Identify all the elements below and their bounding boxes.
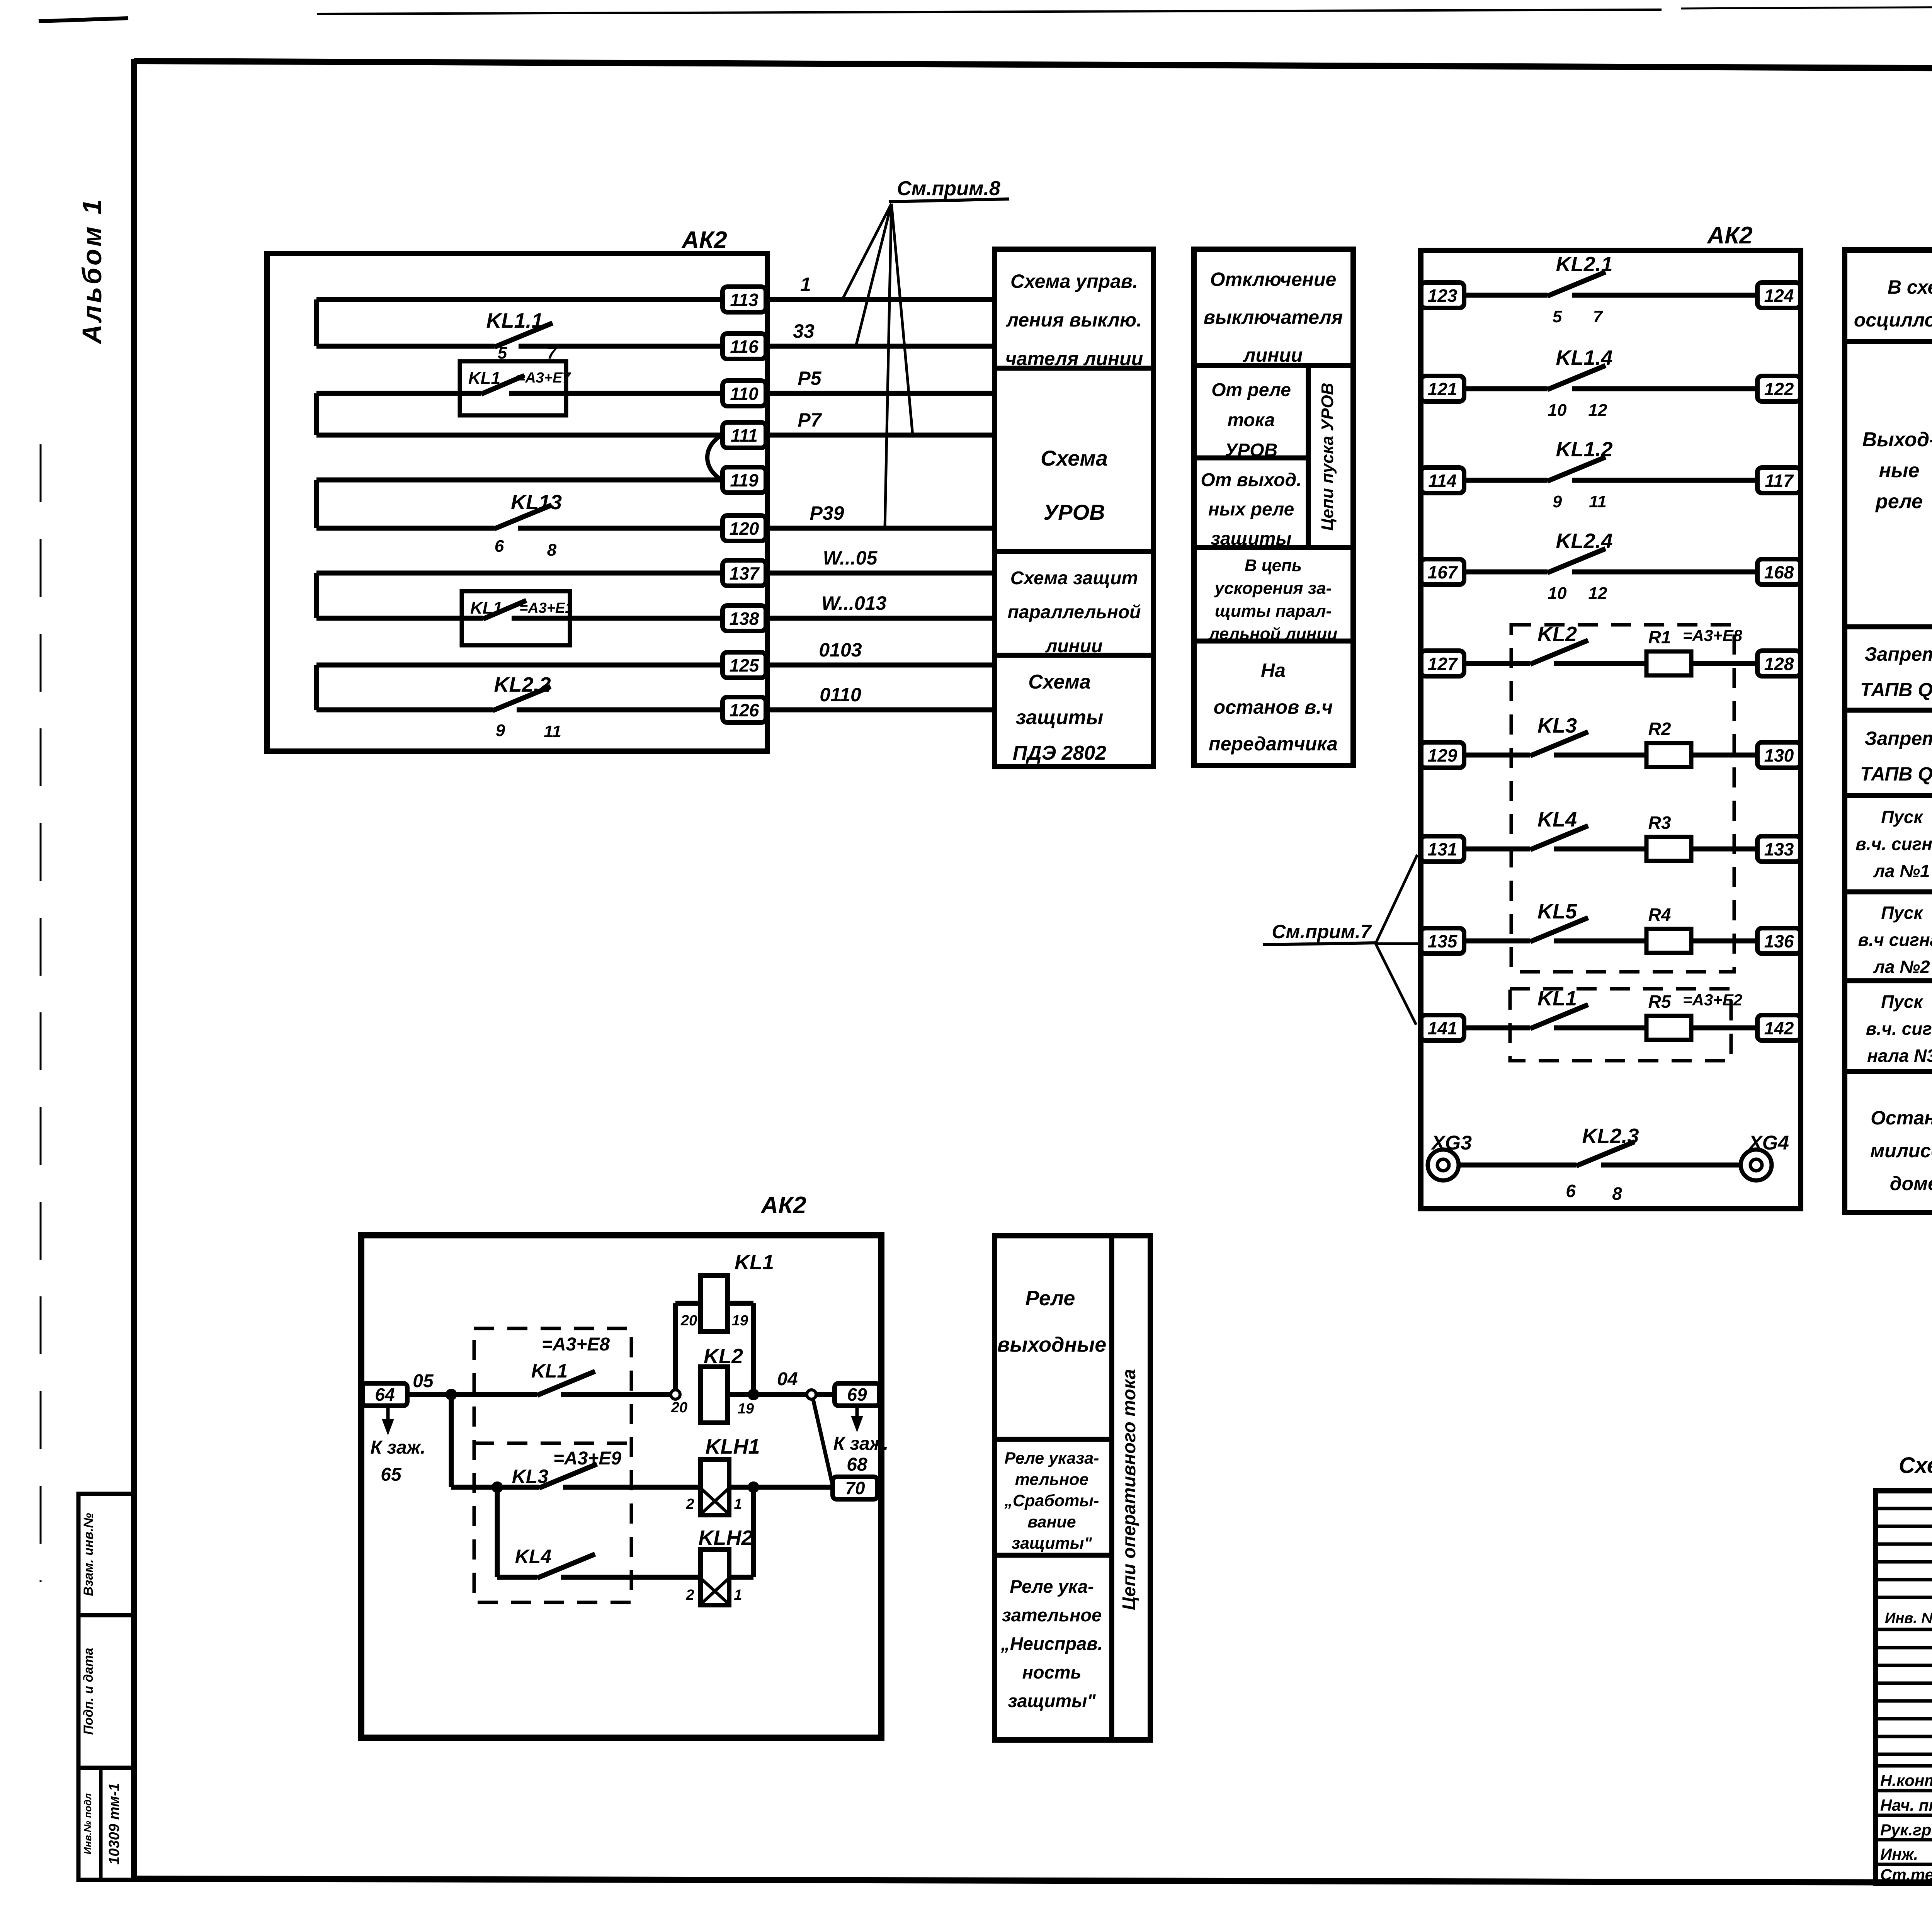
contact KL1 (row 05): [531, 1360, 675, 1395]
wire row 167-168: [1464, 570, 1757, 575]
name row Инж. Буянов: [1880, 1845, 1932, 1863]
svg-text:тельное: тельное: [1015, 1470, 1089, 1489]
svg-text:138: 138: [730, 609, 759, 629]
svg-text:милисекун-: милисекун-: [1870, 1140, 1932, 1162]
contact KL1.2: [1548, 438, 1613, 511]
contact KL3: [512, 1464, 701, 1488]
svg-text:9: 9: [1553, 492, 1562, 511]
svg-text:Подп. и дата: Подп. и дата: [81, 1648, 96, 1735]
wire Р7: [767, 409, 995, 435]
wire Р5: [767, 367, 995, 393]
wire W...013: [767, 592, 995, 618]
frame top edge marks: [39, 18, 128, 21]
wire row 135-136: [1464, 939, 1757, 944]
contact KL2.2: [493, 673, 723, 741]
arrow to zazh 68: [833, 1407, 889, 1475]
wire 04: [728, 1369, 835, 1395]
svg-text:в.ч сигна-: в.ч сигна-: [1858, 930, 1932, 950]
svg-text:KL2.1: KL2.1: [1556, 253, 1612, 276]
relay coil KL1: [680, 1251, 774, 1332]
terminal 126: [723, 697, 766, 723]
svg-text:чателя линии: чателя линии: [1005, 348, 1143, 369]
svg-text:К заж.: К заж.: [833, 1434, 889, 1454]
resistor R2: [1646, 719, 1691, 767]
svg-text:R3: R3: [1648, 813, 1671, 833]
dashed group box (KL1 KL3 KL4): [474, 1328, 631, 1602]
svg-text:ных реле: ных реле: [1208, 499, 1294, 520]
svg-text:19: 19: [732, 1313, 748, 1329]
wire KLH1 to 70: [729, 1485, 833, 1490]
terminal 123: [1421, 282, 1464, 308]
svg-text:Пуск: Пуск: [1881, 903, 1923, 923]
svg-text:линии: линии: [1045, 636, 1103, 656]
terminal 111: [723, 422, 766, 448]
wire branch down: [449, 1395, 454, 1487]
node open 04: [807, 1390, 816, 1399]
svg-text:10: 10: [1548, 584, 1567, 603]
svg-text:7: 7: [1593, 307, 1604, 326]
svg-text:11: 11: [1589, 492, 1607, 511]
svg-text:6: 6: [495, 537, 504, 556]
svg-text:114: 114: [1428, 471, 1456, 491]
svg-text:Пуск: Пуск: [1881, 992, 1923, 1012]
svg-text:Инв. №: Инв. №: [1885, 1610, 1932, 1626]
terminal 125: [723, 652, 766, 678]
svg-text:W...013: W...013: [821, 592, 887, 614]
svg-text:10309 тм-1: 10309 тм-1: [106, 1783, 122, 1864]
svg-text:19: 19: [738, 1401, 754, 1417]
svg-text:130: 130: [1764, 745, 1794, 765]
terminal 124: [1757, 282, 1801, 308]
svg-text:KL2.4: KL2.4: [1556, 529, 1612, 553]
svg-text:R1: R1: [1648, 627, 1671, 647]
svg-text:См.прим.8: См.прим.8: [897, 177, 1000, 200]
contact KL4: [515, 1546, 701, 1578]
svg-text:6: 6: [1566, 1181, 1576, 1201]
svg-text:KL1.4: KL1.4: [1556, 346, 1612, 369]
svg-text:Реле: Реле: [1026, 1287, 1075, 1310]
svg-text:Пуск: Пуск: [1881, 807, 1923, 827]
svg-text:Инв.№ подл: Инв.№ подл: [82, 1793, 94, 1854]
wire 137: [316, 573, 723, 618]
svg-text:1: 1: [800, 274, 811, 295]
leader lines to note 8: [842, 204, 913, 528]
svg-text:Инж.: Инж.: [1880, 1845, 1918, 1863]
wire row 114-117: [1464, 478, 1757, 483]
svg-text:Запрет: Запрет: [1864, 643, 1932, 665]
resistor R3: [1646, 813, 1691, 861]
svg-text:Ст.техн: Ст.техн: [1880, 1866, 1932, 1884]
svg-text:KL3: KL3: [1537, 714, 1577, 737]
wire row 141-142: [1464, 1026, 1757, 1031]
relay block AK2 (bottom-left): [361, 1235, 881, 1738]
svg-text:Н.контр: Н.контр: [1880, 1771, 1932, 1789]
svg-text:Цепи пуска УРОВ: Цепи пуска УРОВ: [1318, 383, 1337, 531]
relay coil KL2: [671, 1345, 754, 1423]
svg-text:Запрет: Запрет: [1864, 728, 1932, 749]
svg-text:„Неисправ.: „Неисправ.: [1000, 1633, 1102, 1654]
svg-text:9: 9: [496, 721, 505, 740]
svg-text:5: 5: [1553, 307, 1562, 326]
leader lines to note 7: [1376, 855, 1421, 1025]
wire row 131-133: [1464, 847, 1757, 852]
svg-text:133: 133: [1764, 839, 1794, 859]
wire 0110: [767, 684, 995, 710]
svg-text:В цепь: В цепь: [1245, 556, 1302, 575]
arrow to zazh 65: [371, 1406, 426, 1485]
relay block AK2 (top-left): [267, 253, 767, 751]
node KLH1-branch: [492, 1481, 503, 1493]
svg-text:68: 68: [847, 1454, 867, 1475]
svg-text:KL4: KL4: [1537, 808, 1577, 831]
svg-text:KL5: KL5: [1537, 900, 1577, 923]
svg-text:ные: ные: [1879, 459, 1920, 482]
side stamp box Vzam inv: [78, 1494, 134, 1615]
svg-text:=А3+Е7: =А3+Е7: [517, 370, 571, 386]
svg-text:домера: домера: [1890, 1173, 1932, 1194]
svg-text:Р5: Р5: [798, 367, 821, 389]
wire 1: [767, 274, 995, 299]
test jack XG3: [1428, 1132, 1472, 1180]
svg-text:Альбом 1: Альбом 1: [77, 197, 107, 345]
svg-text:линии: линии: [1243, 344, 1303, 366]
svg-text:136: 136: [1764, 931, 1794, 951]
terminal 114: [1421, 468, 1464, 493]
terminal 113: [723, 287, 766, 312]
svg-text:R2: R2: [1648, 719, 1671, 739]
relay block AK2 (middle): [1421, 250, 1801, 1209]
svg-text:168: 168: [1764, 562, 1794, 582]
svg-text:05: 05: [413, 1371, 434, 1391]
relay indicator KLH1: [685, 1435, 760, 1515]
svg-text:щиты парал-: щиты парал-: [1215, 602, 1332, 621]
contact KL13: [494, 491, 723, 560]
svg-text:ТАПВ Q2: ТАПВ Q2: [1860, 763, 1932, 785]
column: circuit destinations A: [995, 249, 1153, 767]
svg-text:W...05: W...05: [823, 547, 878, 569]
contact KL2.1: [1548, 253, 1613, 326]
wire row 127-128: [1464, 661, 1757, 666]
svg-text:XG4: XG4: [1748, 1132, 1789, 1154]
svg-text:Взам. инв.№: Взам. инв.№: [81, 1513, 96, 1596]
svg-text:20: 20: [680, 1313, 697, 1329]
svg-text:12: 12: [1588, 584, 1607, 603]
svg-text:137: 137: [730, 563, 760, 583]
svg-text:АК2: АК2: [1706, 222, 1752, 249]
svg-text:KLH1: KLH1: [705, 1435, 760, 1458]
svg-text:KL1: KL1: [470, 599, 502, 617]
svg-text:1: 1: [734, 1496, 742, 1512]
terminal 127: [1421, 651, 1464, 676]
wire KLH2 up: [729, 1487, 753, 1577]
svg-text:KL2.3: KL2.3: [1582, 1124, 1639, 1148]
wire 113 to contact KL1.1: [316, 299, 723, 346]
note Sm.prim.7: [1263, 921, 1376, 945]
terminal 122: [1757, 376, 1801, 401]
svg-text:ла №1: ла №1: [1873, 861, 1930, 881]
terminal 128: [1757, 651, 1801, 676]
svg-text:113: 113: [730, 290, 759, 310]
wire row 129-130: [1464, 753, 1757, 758]
svg-text:Реле указа-: Реле указа-: [1005, 1449, 1099, 1468]
wire 125 to contact KL2.2: [316, 665, 723, 710]
contact KL2.3: [1566, 1124, 1639, 1204]
svg-text:реле: реле: [1875, 490, 1923, 513]
svg-text:От реле: От реле: [1211, 380, 1291, 400]
svg-text:1: 1: [734, 1587, 742, 1603]
terminal 131: [1421, 836, 1464, 862]
wire 119 to contact KL13: [316, 480, 723, 528]
svg-text:10: 10: [1548, 401, 1567, 420]
svg-text:04: 04: [777, 1369, 798, 1389]
svg-text:Схема выполнена на листах 13,1: Схема выполнена на листах 13,14,15,16,17…: [1899, 1453, 1932, 1478]
parallel branch with coil KL1: [675, 1303, 753, 1395]
name row Н.контр Рывкина: [1880, 1771, 1932, 1789]
svg-text:ТАПВ Q1: ТАПВ Q1: [1860, 679, 1932, 701]
svg-text:лельной линии: лельной линии: [1208, 624, 1338, 643]
svg-text:вание: вание: [1027, 1513, 1076, 1531]
svg-text:Схема: Схема: [1041, 446, 1108, 470]
contact KL2.4: [1548, 529, 1613, 603]
svg-text:АК2: АК2: [681, 227, 727, 253]
svg-text:117: 117: [1765, 471, 1794, 491]
wire 110 loop: [316, 393, 723, 435]
svg-text:ность: ность: [1022, 1662, 1082, 1682]
svg-text:тока: тока: [1228, 410, 1275, 430]
terminal 110: [723, 381, 766, 406]
node main-branch: [446, 1389, 457, 1400]
boxed contact KL1 =A3+E1: [462, 591, 723, 645]
terminal 64: [362, 1383, 407, 1406]
svg-text:Р39: Р39: [810, 502, 844, 524]
contact KL3: [1530, 714, 1588, 756]
svg-text:0103: 0103: [819, 639, 862, 661]
svg-text:8: 8: [1612, 1184, 1622, 1204]
wire Р39: [767, 502, 995, 528]
svg-text:=А3+Е8: =А3+Е8: [542, 1334, 610, 1355]
wire 0103: [767, 639, 995, 665]
svg-text:KL2: KL2: [704, 1345, 743, 1368]
dashed group box row 141: [1510, 989, 1731, 1061]
jumper 111-119: [707, 435, 722, 480]
svg-text:120: 120: [730, 519, 759, 539]
wire branch KLH2: [497, 1487, 537, 1577]
svg-text:К заж.: К заж.: [371, 1437, 426, 1458]
svg-text:131: 131: [1428, 839, 1458, 859]
svg-text:12: 12: [1588, 401, 1607, 420]
svg-text:ления выклю.: ления выклю.: [1006, 309, 1142, 331]
svg-text:параллельной: параллельной: [1008, 602, 1141, 622]
svg-text:XG3: XG3: [1430, 1132, 1472, 1154]
svg-text:KL1.2: KL1.2: [1556, 438, 1612, 461]
terminal 129: [1421, 742, 1464, 768]
svg-text:нала N3: нала N3: [1867, 1046, 1932, 1066]
terminal 117: [1757, 468, 1801, 493]
svg-text:Отключение: Отключение: [1210, 269, 1337, 290]
wire W...05: [767, 547, 995, 573]
title block grid: [1876, 1491, 1932, 1883]
svg-text:R4: R4: [1648, 905, 1671, 925]
svg-text:выключателя: выключателя: [1204, 306, 1343, 328]
name row Рук.гр. Титова: [1880, 1821, 1932, 1839]
wire 33: [767, 320, 995, 346]
svg-text:116: 116: [730, 337, 759, 357]
svg-text:110: 110: [730, 384, 759, 404]
svg-text:128: 128: [1764, 654, 1794, 674]
contact KL2: [1530, 622, 1588, 664]
terminal 133: [1757, 836, 1801, 862]
svg-text:Схема управ.: Схема управ.: [1010, 270, 1138, 292]
terminal 142: [1757, 1015, 1801, 1041]
svg-text:129: 129: [1428, 745, 1458, 765]
svg-text:KL1: KL1: [468, 369, 500, 388]
wire 05: [407, 1371, 537, 1395]
svg-text:121: 121: [1428, 379, 1458, 399]
contact KL1: [1530, 987, 1588, 1029]
svg-text:осциллографа: осциллографа: [1854, 309, 1932, 331]
svg-text:выходные: выходные: [997, 1333, 1107, 1356]
svg-text:ускорения за-: ускорения за-: [1214, 579, 1332, 598]
svg-text:20: 20: [671, 1400, 687, 1416]
svg-text:=А3+Е1: =А3+Е1: [519, 600, 573, 616]
contact KL5: [1530, 900, 1588, 942]
svg-text:Выход-: Выход-: [1862, 429, 1932, 451]
side stamp box Podp i data: [78, 1615, 134, 1768]
svg-text:См.прим.7: См.прим.7: [1272, 921, 1372, 942]
svg-text:122: 122: [1764, 379, 1794, 399]
svg-text:141: 141: [1428, 1018, 1458, 1038]
column: circuit destinations C: [1845, 250, 1932, 1213]
terminal 138: [723, 605, 766, 631]
svg-text:зательное: зательное: [1002, 1605, 1102, 1625]
svg-text:R5: R5: [1648, 992, 1672, 1012]
contact KL1.4: [1548, 346, 1613, 420]
svg-text:„Сработы-: „Сработы-: [1004, 1492, 1099, 1510]
svg-text:2: 2: [685, 1587, 694, 1603]
svg-text:в.ч. сиг-: в.ч. сиг-: [1866, 1019, 1932, 1039]
note Sm.prim.8: [889, 177, 1009, 202]
svg-text:Рук.гр.: Рук.гр.: [1880, 1821, 1932, 1839]
svg-text:11: 11: [544, 722, 561, 741]
svg-text:Р7: Р7: [798, 409, 822, 431]
wire diagonal to 70: [813, 1399, 833, 1486]
svg-text:защиты": защиты": [1008, 1690, 1096, 1711]
svg-text:KLH2: KLH2: [698, 1526, 753, 1549]
terminal 69: [835, 1383, 879, 1406]
boxed contact KL1 =A3+E7: [460, 361, 723, 415]
svg-text:135: 135: [1428, 931, 1458, 951]
svg-text:64: 64: [375, 1384, 395, 1405]
svg-text:Схема: Схема: [1028, 671, 1090, 693]
svg-text:69: 69: [847, 1384, 867, 1405]
terminal 121: [1421, 376, 1464, 401]
svg-text:KL1: KL1: [531, 1360, 568, 1382]
svg-text:Реле ука-: Реле ука-: [1010, 1576, 1094, 1597]
svg-text:Остановка: Остановка: [1871, 1107, 1932, 1129]
paper edge dashed left: [40, 444, 42, 1582]
svg-text:2: 2: [685, 1496, 694, 1512]
terminal 120: [723, 515, 766, 541]
terminal 70: [833, 1477, 878, 1499]
svg-text:126: 126: [730, 700, 759, 720]
svg-text:KL1.1: KL1.1: [486, 309, 543, 332]
svg-text:в.ч. сигна-: в.ч. сигна-: [1855, 834, 1932, 854]
svg-text:защиты: защиты: [1016, 706, 1103, 729]
terminal 136: [1757, 928, 1801, 954]
svg-text:111: 111: [731, 425, 758, 446]
svg-text:Нач. птп: Нач. птп: [1880, 1796, 1932, 1814]
relay indicator KLH2: [685, 1526, 753, 1605]
svg-text:33: 33: [793, 320, 815, 342]
node open loop-left: [671, 1390, 680, 1399]
svg-text:8: 8: [547, 541, 557, 560]
node KLH2-join: [748, 1481, 759, 1493]
node loop-right: [748, 1389, 759, 1400]
column: relay descriptions E: [995, 1236, 1150, 1740]
svg-text:От выход.: От выход.: [1201, 470, 1301, 490]
wire row 123-124: [1464, 293, 1757, 298]
svg-text:=А3+Е2: =А3+Е2: [1683, 991, 1742, 1009]
svg-text:0110: 0110: [820, 684, 861, 706]
svg-text:119: 119: [730, 470, 759, 490]
svg-text:ПДЭ 2802: ПДЭ 2802: [1013, 742, 1107, 764]
svg-text:167: 167: [1428, 562, 1458, 582]
svg-text:KL13: KL13: [511, 491, 562, 514]
svg-text:142: 142: [1764, 1018, 1794, 1038]
svg-text:127: 127: [1428, 654, 1458, 674]
svg-text:защиты": защиты": [1012, 1534, 1092, 1553]
svg-text:KL1: KL1: [1537, 987, 1577, 1010]
svg-text:KL1: KL1: [735, 1251, 774, 1274]
contact KL4: [1530, 808, 1588, 850]
terminal 135: [1421, 928, 1464, 954]
svg-text:70: 70: [845, 1478, 865, 1498]
resistor R1: [1646, 627, 1691, 675]
svg-text:KL2.2: KL2.2: [494, 673, 551, 696]
wire XG3-XG4: [1459, 1163, 1741, 1168]
svg-text:защиты: защиты: [1211, 529, 1291, 549]
test jack XG4: [1741, 1132, 1789, 1180]
svg-text:Цепи оперативного тока: Цепи оперативного тока: [1119, 1369, 1139, 1610]
terminal 116: [723, 333, 766, 359]
svg-text:передатчика: передатчика: [1209, 733, 1338, 755]
svg-text:=А3+Е8: =А3+Е8: [1683, 626, 1743, 645]
svg-text:Схема защит: Схема защит: [1010, 568, 1138, 588]
svg-text:123: 123: [1428, 286, 1458, 306]
terminal 137: [723, 560, 766, 586]
dashed group box rows 127-135: [1511, 625, 1734, 972]
svg-text:65: 65: [381, 1464, 402, 1485]
column: circuit destinations B: [1194, 249, 1353, 765]
resistor R4: [1646, 905, 1691, 953]
svg-text:останов в.ч: останов в.ч: [1214, 696, 1333, 718]
terminal 119: [723, 467, 766, 493]
side stamp box Inv n podl: [78, 1768, 134, 1880]
resistor R5: [1646, 992, 1691, 1040]
svg-text:АК2: АК2: [760, 1192, 806, 1219]
terminal 141: [1421, 1015, 1464, 1041]
wire row 121-122: [1464, 386, 1757, 391]
name row Ст.техн Качеткова: [1880, 1866, 1932, 1884]
svg-text:В схему: В схему: [1888, 276, 1932, 298]
svg-text:УРОВ: УРОВ: [1043, 500, 1105, 524]
terminal 168: [1757, 559, 1801, 585]
svg-text:УРОВ: УРОВ: [1225, 440, 1278, 461]
svg-text:125: 125: [730, 655, 760, 675]
svg-text:124: 124: [1764, 286, 1794, 306]
svg-text:KL4: KL4: [515, 1546, 551, 1567]
svg-text:На: На: [1261, 660, 1286, 681]
